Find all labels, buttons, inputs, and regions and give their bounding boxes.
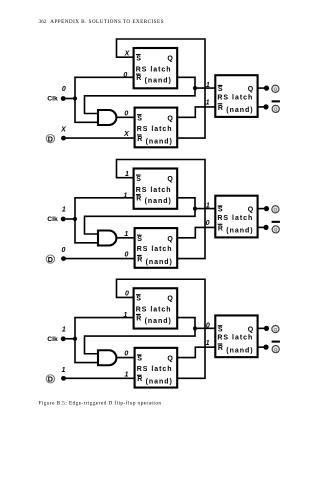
svg-text:R: R [136, 315, 141, 322]
svg-text:D: D [48, 375, 53, 384]
junction node B (group 3) [193, 326, 197, 330]
wire feedback loop from latch U32 lower output to S input of latch U31 [117, 279, 206, 378]
wire from node B to AND gate top input (group 1) [85, 88, 196, 113]
AND gate A1 [98, 110, 116, 125]
RS latch U22 [135, 228, 178, 268]
svg-text:Q: Q [274, 227, 278, 232]
svg-text:1: 1 [62, 326, 66, 333]
svg-text:(nand): (nand) [146, 138, 172, 145]
svg-text:0: 0 [125, 291, 129, 298]
wire D to R input of U32 [64, 377, 135, 379]
svg-text:R: R [218, 345, 223, 352]
svg-text:1: 1 [206, 100, 210, 107]
input terminal Clk (group 2) [47, 216, 75, 223]
svg-text:S: S [136, 176, 141, 183]
output terminal Q (group 1) [258, 85, 279, 92]
svg-text:Q: Q [274, 87, 278, 92]
svg-text:0: 0 [206, 322, 210, 329]
output terminal Q (group 3) [258, 325, 279, 332]
svg-text:Q: Q [274, 347, 278, 352]
svg-text:S: S [218, 327, 223, 334]
wire Clk to R input of U21 and AND gate [75, 198, 134, 243]
svg-text:Q: Q [274, 107, 278, 112]
svg-text:0: 0 [206, 220, 210, 227]
svg-text:RS latch: RS latch [136, 307, 171, 314]
AND gate A2 [98, 231, 116, 246]
junction node B (group 1) [193, 86, 197, 90]
svg-text:1: 1 [206, 203, 210, 210]
svg-text:S: S [137, 115, 142, 122]
output terminal Q-bar (group 3) [258, 341, 280, 353]
svg-text:D: D [48, 255, 53, 264]
RS latch U33 (output latch) [215, 315, 257, 357]
svg-text:Figure B.5: Edge-triggered D f: Figure B.5: Edge-triggered D flip-flop o… [39, 399, 162, 406]
svg-text:1: 1 [123, 192, 127, 199]
svg-text:0: 0 [124, 110, 128, 117]
svg-text:Q: Q [248, 207, 254, 214]
wire D to R input of U12 [64, 137, 135, 139]
svg-text:RS latch: RS latch [217, 94, 252, 101]
wire from U21 lower output to S input of U23 [177, 198, 215, 209]
svg-text:Q: Q [167, 176, 173, 183]
svg-text:RS latch: RS latch [217, 215, 252, 222]
svg-text:Clk: Clk [47, 96, 58, 103]
svg-text:R: R [137, 136, 142, 143]
svg-text:S: S [136, 55, 141, 62]
svg-text:Q: Q [274, 327, 278, 332]
RS latch U32 [135, 348, 178, 388]
svg-text:(nand): (nand) [146, 379, 172, 386]
svg-text:0: 0 [62, 247, 66, 254]
svg-text:Q: Q [167, 356, 173, 363]
junction on Clk line (group 3) [73, 337, 77, 341]
svg-text:R: R [218, 105, 223, 112]
svg-text:(nand): (nand) [226, 347, 252, 354]
svg-text:362: 362 [39, 19, 47, 25]
svg-text:Q: Q [167, 115, 173, 122]
wire from U11 lower output to S input of U13 [177, 77, 215, 88]
svg-text:Clk: Clk [47, 216, 58, 223]
wire feedback loop from latch U22 lower output to S input of latch U21 [117, 160, 206, 259]
junction on Clk line (group 2) [73, 217, 77, 221]
output terminal Q-bar (group 1) [258, 100, 280, 112]
svg-text:0: 0 [62, 86, 66, 93]
RS latch U11 [134, 48, 178, 88]
svg-text:1: 1 [206, 340, 210, 347]
input terminal D (group 3) [46, 375, 66, 384]
RS latch U21 [134, 169, 178, 209]
AND gate A3 [98, 350, 116, 365]
RS latch U13 (output latch) [215, 75, 257, 117]
svg-text:RS latch: RS latch [137, 126, 172, 133]
wire from U12 Q output to R input of U13 [177, 107, 215, 117]
wire Clk to R input of U11 and AND gate [75, 77, 134, 122]
svg-text:RS latch: RS latch [137, 366, 172, 373]
svg-text:S: S [218, 86, 223, 93]
svg-text:(nand): (nand) [146, 259, 172, 266]
RS latch U12 [135, 108, 178, 148]
svg-text:0: 0 [125, 252, 129, 259]
RS latch U31 [134, 288, 178, 328]
input terminal Clk (group 1) [47, 96, 75, 103]
wire Clk to R input of U31 and AND gate [75, 318, 134, 363]
input terminal D (group 1) [46, 134, 66, 143]
svg-text:0: 0 [124, 351, 128, 358]
svg-text:S: S [136, 296, 141, 303]
svg-text:(nand): (nand) [145, 318, 171, 325]
svg-text:(nand): (nand) [226, 228, 252, 235]
wire AND gate output to S input of U22 [116, 237, 134, 239]
svg-text:(nand): (nand) [226, 107, 252, 114]
svg-text:Q: Q [167, 296, 173, 303]
svg-text:R: R [136, 75, 141, 82]
svg-text:R: R [137, 376, 142, 383]
svg-text:Clk: Clk [47, 336, 58, 343]
RS latch U23 (output latch) [215, 196, 257, 238]
svg-text:1: 1 [62, 207, 66, 214]
svg-text:S: S [137, 356, 142, 363]
output terminal Q-bar (group 2) [258, 221, 280, 233]
svg-text:R: R [136, 196, 141, 203]
svg-text:1: 1 [124, 231, 128, 238]
svg-text:RS latch: RS latch [136, 67, 171, 74]
svg-text:D: D [48, 134, 53, 143]
wire feedback loop from latch U12 lower output to S input of latch U11 [117, 39, 206, 138]
output terminal Q (group 2) [258, 206, 279, 213]
svg-text:RS latch: RS latch [217, 335, 252, 342]
junction on Clk line (group 1) [73, 96, 77, 100]
svg-text:1: 1 [206, 82, 210, 89]
svg-text:S: S [218, 207, 223, 214]
svg-text:Q: Q [167, 55, 173, 62]
svg-text:1: 1 [125, 171, 129, 178]
junction node B (group 2) [193, 207, 197, 211]
svg-text:1: 1 [125, 371, 129, 378]
wire from node B to AND gate top input (group 2) [85, 209, 196, 234]
input terminal D (group 2) [46, 255, 66, 264]
svg-text:RS latch: RS latch [136, 187, 171, 194]
wire from node B to AND gate top input (group 3) [85, 328, 196, 353]
wire from U32 Q output to R input of U33 [177, 347, 215, 357]
svg-text:Q: Q [248, 86, 254, 93]
svg-text:(nand): (nand) [145, 78, 171, 85]
svg-text:RS latch: RS latch [137, 246, 172, 253]
wire AND gate output to S input of U32 [116, 357, 134, 359]
svg-text:0: 0 [123, 72, 127, 79]
svg-text:R: R [218, 225, 223, 232]
svg-text:Q: Q [274, 207, 278, 212]
input terminal Clk (group 3) [47, 336, 75, 343]
svg-text:Q: Q [167, 236, 173, 243]
svg-text:APPENDIX B. SOLUTIONS TO EXERC: APPENDIX B. SOLUTIONS TO EXERCISES [50, 19, 163, 25]
svg-text:(nand): (nand) [145, 198, 171, 205]
wire D to R input of U22 [64, 258, 135, 260]
svg-text:1: 1 [123, 312, 127, 319]
wire AND gate output to S input of U12 [116, 116, 134, 118]
wire from U22 Q output to R input of U23 [177, 227, 215, 237]
svg-text:Q: Q [248, 327, 254, 334]
wire from U31 lower output to S input of U33 [177, 318, 215, 329]
svg-text:S: S [137, 236, 142, 243]
svg-text:1: 1 [62, 367, 66, 374]
svg-text:R: R [137, 257, 142, 264]
